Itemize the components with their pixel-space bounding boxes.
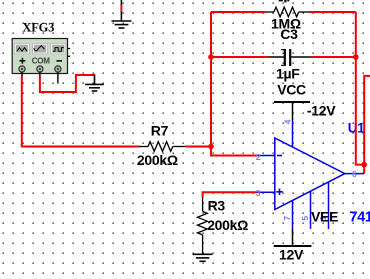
svg-text:741: 741 xyxy=(349,210,370,226)
function generator XFG3 xyxy=(12,21,70,84)
capacitor C3 xyxy=(269,49,312,66)
plus marking xyxy=(276,189,282,195)
terminal stubs xyxy=(22,72,58,83)
wire (cap rail left) xyxy=(211,56,269,58)
wire (left feedback rail and to op-amp pin 2) xyxy=(211,12,257,156)
svg-text:6: 6 xyxy=(352,169,357,179)
svg-text:R7: R7 xyxy=(151,123,169,139)
junction (cap left) xyxy=(208,54,214,60)
op-amp U1 741 xyxy=(256,119,370,229)
svg-text:-12V: -12V xyxy=(307,102,336,118)
ground (XFG3 COM) xyxy=(85,74,104,91)
wire (cap rail right) xyxy=(311,56,356,58)
triangle body xyxy=(275,138,345,210)
resistor 1MΩ (feedback) xyxy=(266,7,310,17)
junction (output node) xyxy=(361,162,367,168)
junction (cap right) xyxy=(353,54,359,60)
ground (below R3) xyxy=(193,254,213,261)
sine button xyxy=(14,43,29,54)
pin 1 stub xyxy=(328,182,330,229)
minus terminal label xyxy=(56,60,62,62)
svg-text:7: 7 xyxy=(282,216,292,221)
svg-text:VCC: VCC xyxy=(277,82,306,98)
svg-text:200kΩ: 200kΩ xyxy=(207,217,248,233)
svg-text:R3: R3 xyxy=(208,198,226,214)
svg-text:2: 2 xyxy=(256,152,261,162)
power VCC xyxy=(274,82,336,121)
svg-text:C3: C3 xyxy=(280,26,298,42)
triangle button xyxy=(33,43,48,54)
cropped label above (partially visible) xyxy=(279,0,290,2)
box edge ticks xyxy=(68,49,71,57)
square button xyxy=(51,43,66,54)
svg-text:XFG3: XFG3 xyxy=(22,21,54,35)
pin 2 stub xyxy=(257,155,275,157)
junction (R7 / feedback node) xyxy=(208,144,214,150)
terminal - xyxy=(55,66,61,72)
pin 7 stub (bottom, VEE) xyxy=(292,200,294,229)
wire (top rail left of 1MΩ) xyxy=(211,11,266,13)
resistor R3 xyxy=(198,198,208,255)
svg-text:3: 3 xyxy=(256,188,261,198)
ground (top, near XFG3) xyxy=(112,0,132,28)
wire (XFG3 + output down and to R7) xyxy=(22,77,140,147)
svg-text:VEE: VEE xyxy=(311,209,338,225)
wire (R7 to inverting node) xyxy=(185,146,211,148)
wire (output up and off right edge) xyxy=(364,76,370,173)
terminal COM xyxy=(37,66,43,72)
+ terminal label xyxy=(19,58,25,64)
svg-text:12V: 12V xyxy=(279,247,304,263)
wire (right feedback rail) xyxy=(356,12,364,165)
minus marking xyxy=(277,155,282,157)
wire (XFG3 COM to ground) xyxy=(40,75,94,92)
power VEE xyxy=(274,209,338,263)
resistor R7 xyxy=(139,142,185,152)
pin 6 stub xyxy=(345,173,364,175)
pin 3 stub xyxy=(257,191,275,193)
wire (stub into top ground) xyxy=(120,5,122,12)
wire (top rail right of 1MΩ) xyxy=(309,11,356,13)
svg-text:200kΩ: 200kΩ xyxy=(137,152,178,168)
terminal + xyxy=(19,66,25,72)
svg-text:4: 4 xyxy=(282,119,292,124)
wire (R3 to op-amp pin 3) xyxy=(203,192,257,197)
svg-text:1µF: 1µF xyxy=(276,66,300,82)
svg-text:5: 5 xyxy=(300,216,310,221)
pin 4 stub (top, VCC) xyxy=(292,121,294,147)
pin 5 stub xyxy=(310,191,312,229)
svg-text:COM: COM xyxy=(32,56,50,65)
